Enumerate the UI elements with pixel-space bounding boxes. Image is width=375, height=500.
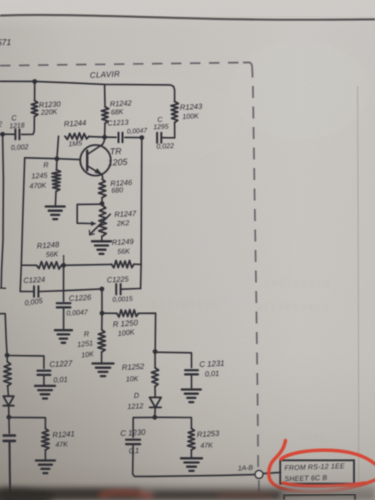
wire R1230 bottom to C1218: [22, 117, 35, 135]
rule top page: [0, 15, 375, 20]
label fragment left: [0, 120, 3, 129]
wire row2 c: [121, 288, 141, 291]
wire left below dot: [8, 417, 10, 433]
wire R1251 bottom: [101, 352, 103, 363]
label terminal 1A-B: [238, 465, 254, 473]
node dot emitter-pot: [100, 201, 105, 206]
node dot 1252-top: [153, 349, 158, 354]
wire rail1248 right: [134, 263, 141, 265]
capacitor C1231: [185, 359, 225, 379]
wire base left drop: [21, 158, 24, 265]
page right edge line: [358, 86, 359, 500]
resistor R1251: [77, 329, 106, 359]
node dot row2-102: [100, 287, 105, 292]
wire D1212 bottom: [154, 408, 156, 418]
capacitor C1218: [9, 113, 28, 152]
wire left diode link: [7, 386, 10, 396]
capacitor C1226: [57, 293, 92, 318]
resistor R1242: [101, 98, 131, 123]
capacitor C1225: [107, 274, 133, 303]
resistor R1241: [42, 429, 75, 450]
ground R1251: [93, 364, 114, 377]
wire base horizontal: [25, 158, 81, 160]
ground R1253: [181, 458, 202, 471]
resistor R1247 potentiometer: [89, 206, 137, 237]
node dot left-C1227: [5, 353, 10, 358]
red pen annotation: [269, 441, 375, 493]
resistor R1243: [171, 102, 203, 123]
dashed boundary horizontal: [0, 63, 242, 66]
diode D-left: [3, 396, 14, 406]
wire left vertical upper: [1, 134, 3, 287]
node dot C1295-left: [139, 135, 144, 140]
wire row2 leftdrop: [20, 265, 21, 291]
wire collector up: [103, 137, 105, 144]
resistor R-left: [4, 355, 12, 386]
wire R1241 branch: [9, 417, 46, 428]
capacitor C-left: [4, 436, 15, 441]
wire R1243 bottom: [174, 123, 176, 138]
dashed boundary corner: [243, 62, 253, 77]
label sheet reference line2: [284, 475, 327, 483]
ground R1241: [36, 461, 55, 474]
resistor R1250: [113, 310, 139, 338]
node dot collector: [102, 135, 107, 140]
node dot mid-rail: [61, 263, 66, 268]
lighter band above top rule: [0, 0, 375, 16]
partial box bottom overlay: [284, 495, 355, 500]
dashed boundary vertical: [253, 86, 259, 500]
node dot r1250: [100, 311, 105, 316]
partial box bottom: [284, 495, 355, 500]
bottom dark blur strip: [0, 484, 375, 500]
resistor R1248: [37, 240, 62, 269]
wire C1226 bottom: [63, 308, 65, 330]
wire mid stub up: [63, 256, 65, 266]
label CLAVIR: [90, 69, 121, 80]
wire R1253 bottom: [190, 450, 192, 458]
wire R1250 right: [139, 313, 156, 351]
ghost bleedthrough text: [152, 278, 329, 442]
ground C1227: [35, 386, 55, 399]
diode D1212: [127, 391, 161, 411]
node dot rail-R1230: [32, 79, 37, 84]
sheet reference box: [280, 460, 354, 483]
wire R1252 bottom: [154, 387, 156, 398]
wire R1244 right: [89, 136, 105, 139]
wire R1247 bottom: [101, 236, 103, 241]
wire C1295 right: [162, 137, 175, 139]
wire rail1248 left: [21, 264, 36, 266]
wire diode to dot: [8, 406, 10, 418]
node dot C1218-left: [0, 132, 5, 137]
wire C1227 branch: [7, 356, 44, 369]
label sheet reference line1: [284, 463, 345, 472]
node dot left-1241: [6, 415, 11, 420]
wire emitter down: [101, 175, 104, 180]
wire R1251 top: [101, 313, 103, 330]
wire row2 b: [40, 289, 100, 291]
resistor R1252: [122, 362, 159, 387]
wire C1230 bottom: [133, 444, 150, 476]
capacitor C1230: [120, 428, 146, 456]
wire R1253 branch: [155, 417, 192, 428]
wire row2 a: [20, 290, 33, 292]
wire C1218 left: [0, 133, 15, 135]
wire left stub mid: [0, 314, 7, 356]
resistor R1245: [29, 160, 60, 191]
node dot 1212-bot: [152, 415, 157, 420]
wire collector node row: [105, 136, 117, 138]
resistor R1253: [188, 428, 221, 450]
schematic ink: [0, 79, 280, 500]
wire C1231 bottom: [191, 375, 193, 389]
wire C1227 bottom: [43, 375, 45, 385]
wire drop 102: [101, 289, 103, 313]
wire R1242 bottom: [104, 123, 106, 137]
wire R1250 left: [102, 312, 117, 314]
wire wiper box: [77, 204, 102, 226]
wire C1230 branch: [133, 417, 155, 437]
terminal circle 1A-B: [255, 471, 263, 479]
ground C1226: [55, 330, 72, 343]
capacitor C1295: [153, 117, 174, 151]
wire R1246 bottom: [101, 198, 103, 204]
paper mottling: [10, 40, 370, 410]
ground R1247: [92, 241, 111, 254]
wire C1231 branch: [155, 352, 191, 367]
capacitor C1213: [107, 118, 147, 143]
wire row2 rightup: [140, 264, 143, 288]
label value C1224: [24, 296, 44, 308]
wire C1213 to C1295: [125, 136, 142, 138]
wire feedback vertical: [140, 138, 143, 265]
wire left stub row2: [0, 287, 6, 289]
resistor R1244: [64, 118, 89, 148]
resistor R1249: [112, 237, 135, 268]
ground R1245: [46, 207, 65, 220]
label page number 571: [0, 37, 12, 48]
resistor R1230: [31, 99, 61, 117]
wire to sheet ref: [263, 472, 280, 473]
wire R1244 left corner: [57, 136, 59, 158]
resistor R1246: [99, 178, 134, 198]
wire bottom out: [150, 475, 255, 477]
wire R1245 bottom: [54, 191, 57, 206]
wire R1252 top: [154, 352, 156, 368]
wire R1242 stub: [104, 85, 106, 107]
wire R1241 bottom: [44, 450, 46, 460]
wire R1230 stub: [34, 82, 36, 101]
wire rail1248 mid: [62, 263, 112, 266]
wire top supply rail CLAVIR: [0, 81, 175, 101]
bottom-left vignette: [0, 250, 240, 500]
node dot base-R1245: [55, 156, 60, 161]
transistor TR1205: [80, 144, 128, 175]
wire R1245 top: [56, 159, 58, 170]
wire C1226 drop: [63, 265, 65, 301]
capacitor C1227: [38, 359, 74, 385]
ground C1231: [182, 390, 201, 403]
capacitor C1224: [23, 275, 45, 297]
wire left bottom tail: [9, 441, 12, 500]
